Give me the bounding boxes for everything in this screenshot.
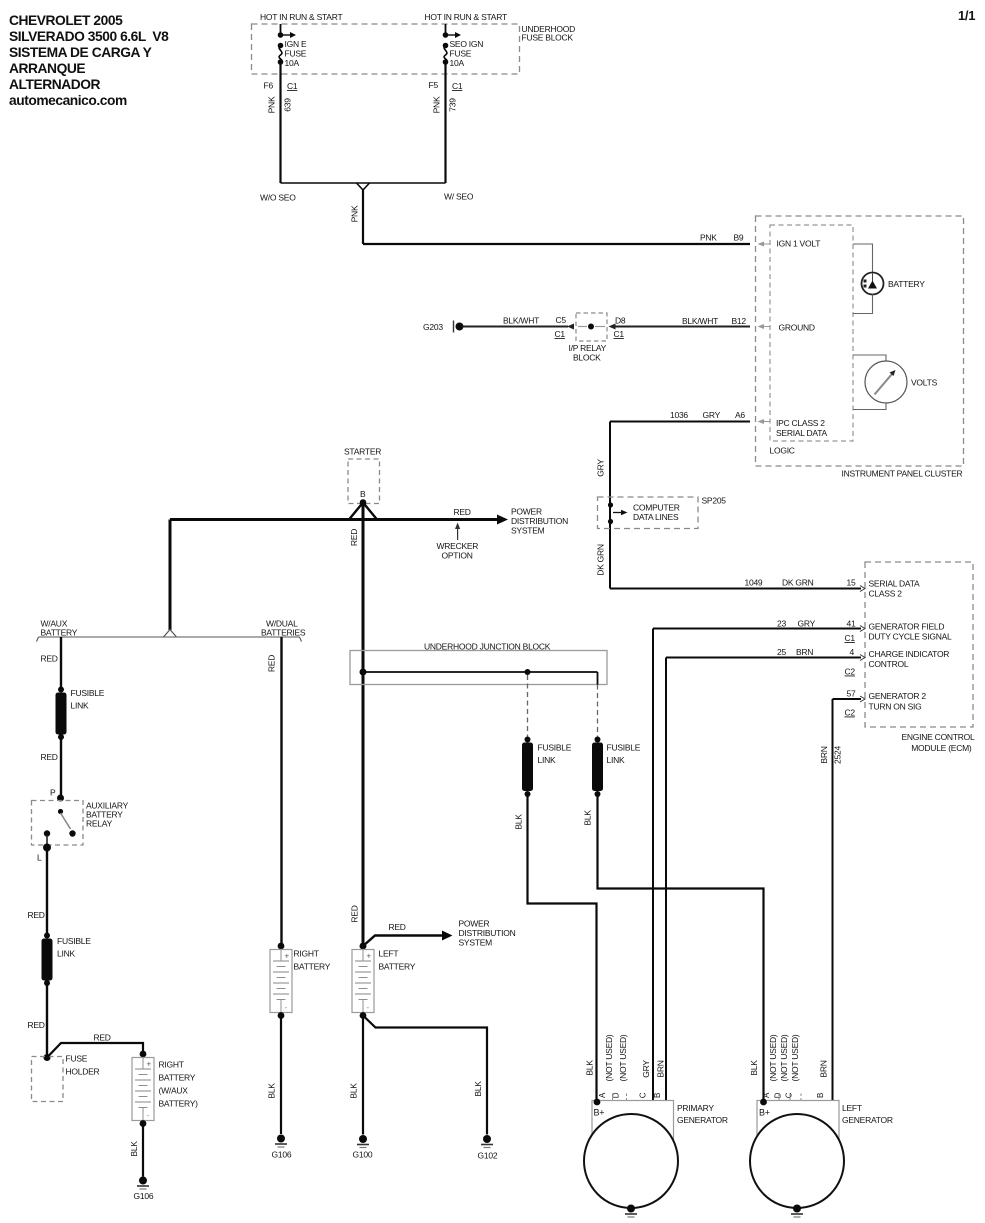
svg-text:LEFT: LEFT bbox=[842, 1103, 862, 1113]
svg-text:RED: RED bbox=[454, 507, 471, 517]
svg-text:B: B bbox=[360, 489, 366, 499]
svg-text:SILVERADO 3500 6.6L V8: SILVERADO 3500 6.6L V8 bbox=[9, 29, 169, 44]
svg-text:DK GRN: DK GRN bbox=[596, 544, 606, 576]
fusible link 1 (aux) bbox=[56, 687, 105, 741]
svg-text:F6: F6 bbox=[264, 81, 274, 91]
svg-text:SYSTEM: SYSTEM bbox=[459, 938, 493, 948]
wire RED relay L to fusible link bbox=[28, 848, 48, 936]
wire PNK to instrument panel cluster B9 bbox=[350, 189, 751, 244]
fusible link 2 (aux) bbox=[42, 933, 92, 987]
svg-text:BATTERY): BATTERY) bbox=[159, 1099, 199, 1109]
primary generator bbox=[584, 1101, 728, 1209]
auxiliary battery relay bbox=[32, 801, 129, 846]
svg-text:GRY: GRY bbox=[641, 1060, 651, 1078]
dashed wire to fusible link 3 bbox=[527, 675, 529, 737]
wire BLK left battery second ground bbox=[363, 1016, 487, 1135]
svg-text:GENERATOR FIELD: GENERATOR FIELD bbox=[869, 622, 945, 632]
svg-text:(NOT USED): (NOT USED) bbox=[779, 1034, 789, 1081]
instrument panel cluster box bbox=[756, 216, 964, 479]
svg-text:LINK: LINK bbox=[71, 701, 89, 711]
svg-text:COMPUTER: COMPUTER bbox=[633, 503, 680, 513]
svg-text:BLK: BLK bbox=[583, 810, 593, 826]
net HOT IN RUN & START (right) bbox=[425, 12, 507, 22]
ground G102 bbox=[478, 1135, 498, 1161]
svg-text:LINK: LINK bbox=[607, 755, 625, 765]
svg-text:GRY: GRY bbox=[596, 459, 606, 477]
wire RED to fuse holder bbox=[28, 983, 51, 1061]
underhood junction block bbox=[350, 642, 607, 685]
svg-text:(NOT USED): (NOT USED) bbox=[768, 1034, 778, 1081]
svg-text:FUSE BLOCK: FUSE BLOCK bbox=[522, 33, 574, 43]
svg-text:BATTERY: BATTERY bbox=[294, 962, 331, 972]
svg-text:1036: 1036 bbox=[670, 410, 688, 420]
wire BLK left battery to ground bbox=[349, 1016, 364, 1135]
svg-text:PNK: PNK bbox=[700, 233, 717, 243]
svg-text:GENERATOR 2: GENERATOR 2 bbox=[869, 691, 927, 701]
svg-text:CLASS 2: CLASS 2 bbox=[869, 589, 903, 599]
svg-text:GENERATOR: GENERATOR bbox=[842, 1115, 893, 1125]
primary generator pin labels A D C B bbox=[598, 1092, 662, 1098]
svg-text:F5: F5 bbox=[429, 80, 439, 90]
svg-text:RED: RED bbox=[41, 752, 58, 762]
node W/O SEO / W/ SEO merge bbox=[260, 183, 474, 203]
splice SP205 computer data lines bbox=[598, 496, 727, 589]
svg-text:HOT IN RUN & START: HOT IN RUN & START bbox=[425, 12, 507, 22]
svg-text:ENGINE CONTROL: ENGINE CONTROL bbox=[901, 732, 975, 742]
svg-text:BRN: BRN bbox=[819, 1060, 829, 1077]
svg-text:RIGHT: RIGHT bbox=[294, 949, 319, 959]
svg-text:BLK: BLK bbox=[349, 1083, 359, 1099]
svg-text:RED: RED bbox=[94, 1033, 111, 1043]
svg-text:RED: RED bbox=[28, 1020, 45, 1030]
svg-text:10A: 10A bbox=[450, 58, 465, 68]
svg-text:SP205: SP205 bbox=[702, 496, 727, 506]
svg-text:FUSE: FUSE bbox=[66, 1054, 88, 1064]
wire BLK right battery to ground bbox=[267, 1016, 282, 1135]
svg-text:W/O SEO: W/O SEO bbox=[260, 193, 296, 203]
pin B12 GROUND bbox=[758, 323, 815, 333]
I/P relay block bbox=[569, 313, 608, 363]
wire BLK/WHT D8 to IPC B12 bbox=[609, 316, 751, 340]
left generator wire color labels bbox=[749, 1034, 829, 1100]
svg-text:DISTRIBUTION: DISTRIBUTION bbox=[459, 928, 516, 938]
svg-text:RED: RED bbox=[349, 529, 359, 546]
svg-text:GROUND: GROUND bbox=[779, 323, 815, 333]
ground G106 (right battery) bbox=[272, 1135, 292, 1160]
svg-text:B: B bbox=[653, 1093, 662, 1098]
svg-text:RED: RED bbox=[389, 922, 406, 932]
net HOT IN RUN & START (left) bbox=[260, 12, 342, 22]
svg-text:B9: B9 bbox=[734, 233, 744, 243]
svg-text:BATTERY: BATTERY bbox=[888, 279, 925, 289]
svg-text:POWER: POWER bbox=[511, 507, 542, 517]
connector label F5 C1 bbox=[429, 80, 463, 91]
ground G106 (aux battery) bbox=[134, 1177, 154, 1202]
svg-text:25: 25 bbox=[777, 647, 786, 657]
svg-text:15: 15 bbox=[847, 578, 856, 588]
svg-text:IGN E: IGN E bbox=[285, 39, 307, 49]
node primary generator B+ bbox=[594, 1099, 601, 1106]
svg-text:BRN: BRN bbox=[819, 746, 829, 763]
svg-text:57: 57 bbox=[847, 689, 856, 699]
svg-text:VOLTS: VOLTS bbox=[911, 378, 938, 388]
svg-text:SERIAL DATA: SERIAL DATA bbox=[869, 579, 921, 589]
starter B terminal bbox=[344, 447, 381, 506]
svg-text:B+: B+ bbox=[594, 1108, 605, 1118]
svg-text:LEFT: LEFT bbox=[379, 949, 399, 959]
dashed wire to fusible link 4 bbox=[597, 685, 599, 737]
wire PNK 639 from fuse F6 bbox=[267, 62, 293, 183]
svg-text:BLK: BLK bbox=[585, 1060, 595, 1076]
svg-text:PNK: PNK bbox=[267, 96, 277, 113]
svg-text:ARRANQUE: ARRANQUE bbox=[9, 61, 85, 76]
svg-text:IPC CLASS 2: IPC CLASS 2 bbox=[776, 418, 825, 428]
svg-text:FUSIBLE: FUSIBLE bbox=[71, 688, 105, 698]
svg-text:DK GRN: DK GRN bbox=[782, 578, 814, 588]
fusible link 4 bbox=[592, 737, 641, 798]
svg-text:RED: RED bbox=[350, 905, 360, 922]
svg-text:PRIMARY: PRIMARY bbox=[677, 1103, 714, 1113]
svg-text:(NOT USED): (NOT USED) bbox=[618, 1034, 628, 1081]
svg-text:1049: 1049 bbox=[745, 578, 763, 588]
svg-text:B+: B+ bbox=[759, 1108, 770, 1118]
svg-text:FUSIBLE: FUSIBLE bbox=[607, 743, 641, 753]
pin A6 IPC CLASS 2 SERIAL DATA bbox=[758, 418, 828, 438]
fuse F6 IGN E FUSE 10A bbox=[278, 24, 307, 68]
svg-text:SYSTEM: SYSTEM bbox=[511, 526, 545, 536]
svg-text:23: 23 bbox=[777, 619, 786, 629]
svg-text:HOLDER: HOLDER bbox=[66, 1067, 100, 1077]
svg-text:B: B bbox=[816, 1093, 825, 1098]
svg-text:BATTERY: BATTERY bbox=[379, 962, 416, 972]
svg-text:RED: RED bbox=[41, 654, 58, 664]
svg-text:C2: C2 bbox=[845, 667, 856, 677]
svg-text:BLK: BLK bbox=[473, 1081, 483, 1097]
svg-text:I/P RELAY: I/P RELAY bbox=[569, 343, 607, 353]
svg-text:PNK: PNK bbox=[350, 205, 360, 222]
svg-text:G106: G106 bbox=[272, 1150, 292, 1160]
svg-text:P: P bbox=[50, 788, 56, 798]
svg-text:C2: C2 bbox=[845, 708, 856, 718]
wire BLK aux battery to ground bbox=[129, 1124, 143, 1177]
svg-text:G102: G102 bbox=[478, 1151, 498, 1161]
svg-text:D: D bbox=[774, 1092, 783, 1098]
wire BRN 25 ECM pin 4 C2 charge indicator bbox=[666, 647, 865, 1100]
svg-text:RED: RED bbox=[267, 655, 277, 672]
wire PNK 739 from fuse F5 bbox=[432, 62, 458, 183]
svg-text:G100: G100 bbox=[353, 1150, 373, 1160]
fusible link 3 bbox=[522, 737, 572, 798]
engine control module (ECM) box bbox=[865, 562, 975, 753]
svg-text:ALTERNADOR: ALTERNADOR bbox=[9, 77, 101, 92]
svg-text:C1: C1 bbox=[452, 81, 463, 91]
primary generator wire color labels bbox=[585, 1034, 666, 1100]
right battery bbox=[270, 943, 331, 1019]
wire RED to auxiliary battery relay P bbox=[41, 737, 65, 802]
svg-text:C1: C1 bbox=[555, 329, 566, 339]
wire RED dual batteries branch bbox=[267, 637, 282, 946]
volts gauge bbox=[853, 355, 938, 410]
wire RED left battery to power distribution system bbox=[363, 919, 516, 948]
svg-text:739: 739 bbox=[448, 98, 458, 112]
svg-text:G203: G203 bbox=[423, 322, 443, 332]
svg-text:DUTY CYCLE SIGNAL: DUTY CYCLE SIGNAL bbox=[869, 632, 953, 642]
svg-text:FUSE: FUSE bbox=[285, 49, 307, 59]
fuse holder bbox=[32, 1054, 100, 1102]
svg-text:IGN 1 VOLT: IGN 1 VOLT bbox=[777, 239, 821, 249]
wrecker option note bbox=[437, 523, 479, 561]
wire RED starter to power distribution system bbox=[170, 507, 568, 536]
svg-text:C5: C5 bbox=[556, 315, 567, 325]
svg-text:BRN: BRN bbox=[796, 647, 813, 657]
svg-text:(NOT USED): (NOT USED) bbox=[604, 1034, 614, 1081]
svg-text:BLK: BLK bbox=[267, 1083, 277, 1099]
left generator bbox=[750, 1101, 893, 1209]
svg-text:BLOCK: BLOCK bbox=[573, 353, 601, 363]
svg-text:C1: C1 bbox=[845, 633, 856, 643]
svg-text:FUSIBLE: FUSIBLE bbox=[538, 743, 572, 753]
svg-text:LINK: LINK bbox=[538, 755, 556, 765]
wire RED fuse holder to right aux battery bbox=[47, 1033, 143, 1058]
svg-text:BLK: BLK bbox=[749, 1060, 759, 1076]
battery charge indicator lamp bbox=[853, 244, 925, 314]
svg-text:BLK: BLK bbox=[514, 814, 524, 830]
svg-text:SISTEMA DE CARGA Y: SISTEMA DE CARGA Y bbox=[9, 45, 152, 60]
left generator case ground bbox=[791, 1205, 803, 1218]
svg-text:BATTERY: BATTERY bbox=[41, 628, 78, 638]
svg-text:SEO IGN: SEO IGN bbox=[450, 39, 484, 49]
svg-text:PNK: PNK bbox=[432, 96, 442, 113]
svg-text:FUSE: FUSE bbox=[450, 49, 472, 59]
svg-text:LOGIC: LOGIC bbox=[770, 446, 795, 456]
svg-text:HOT IN RUN & START: HOT IN RUN & START bbox=[260, 12, 342, 22]
connector label F6 C1 bbox=[264, 81, 298, 92]
wire RED left battery label bbox=[350, 905, 367, 949]
node left generator B+ bbox=[760, 1099, 767, 1106]
pin B9 IGN 1 VOLT bbox=[758, 239, 821, 249]
svg-text:STARTER: STARTER bbox=[344, 447, 381, 457]
svg-text:OPTION: OPTION bbox=[442, 551, 473, 561]
svg-text:FUSIBLE: FUSIBLE bbox=[57, 936, 91, 946]
svg-text:4: 4 bbox=[850, 647, 855, 657]
svg-text:BATTERY: BATTERY bbox=[159, 1073, 196, 1083]
node junction block tap 1 bbox=[360, 669, 367, 676]
svg-text:BRN: BRN bbox=[656, 1060, 666, 1077]
svg-text:WRECKER: WRECKER bbox=[437, 541, 479, 551]
svg-text:C1: C1 bbox=[287, 81, 298, 91]
svg-text:DATA LINES: DATA LINES bbox=[633, 512, 679, 522]
svg-text:1/1: 1/1 bbox=[958, 8, 975, 23]
svg-text:SERIAL DATA: SERIAL DATA bbox=[776, 428, 828, 438]
svg-text:GENERATOR: GENERATOR bbox=[677, 1115, 728, 1125]
svg-text:CONTROL: CONTROL bbox=[869, 659, 909, 669]
svg-text:MODULE (ECM): MODULE (ECM) bbox=[911, 743, 972, 753]
wire DK GRN 1049 to ECM pin 15 bbox=[596, 544, 866, 591]
svg-text:GRY: GRY bbox=[798, 619, 816, 629]
wire RED aux branch down bbox=[41, 637, 62, 690]
wire GRY 23 ECM pin 41 C1 to generator field bbox=[653, 619, 865, 1101]
svg-text:639: 639 bbox=[283, 98, 293, 112]
svg-text:(W/AUX: (W/AUX bbox=[159, 1086, 189, 1096]
left generator pin labels A D C B bbox=[762, 1092, 825, 1098]
wire BLK fusible link 3 to primary generator B+ bbox=[514, 794, 597, 1100]
svg-text:RELAY: RELAY bbox=[86, 819, 113, 829]
node starter B junction bbox=[349, 503, 377, 520]
svg-text:POWER: POWER bbox=[459, 919, 490, 929]
svg-text:B12: B12 bbox=[732, 316, 747, 326]
option bracket W/AUX BATTERY vs W/DUAL BATTERIES bbox=[37, 619, 306, 642]
svg-text:C: C bbox=[639, 1092, 648, 1098]
wire BLK fusible link 4 to left generator B+ bbox=[583, 794, 764, 1100]
underhood fuse block box bbox=[252, 24, 576, 74]
wire RED to aux battery bracket bbox=[169, 520, 172, 631]
svg-text:BLK/WHT: BLK/WHT bbox=[503, 316, 539, 326]
logic module box bbox=[770, 225, 854, 456]
relay terminal L bbox=[37, 844, 51, 863]
title block text bbox=[9, 13, 169, 108]
svg-text:GRY: GRY bbox=[703, 410, 721, 420]
svg-text:BLK: BLK bbox=[129, 1141, 139, 1157]
svg-text:CHEVROLET 2005: CHEVROLET 2005 bbox=[9, 13, 123, 28]
right battery (w/aux battery) bbox=[132, 1051, 198, 1127]
ground splice G203 bbox=[423, 321, 464, 333]
svg-text:LINK: LINK bbox=[57, 949, 75, 959]
left battery bbox=[352, 943, 416, 1019]
svg-text:CHARGE INDICATOR: CHARGE INDICATOR bbox=[869, 649, 950, 659]
svg-text:2524: 2524 bbox=[833, 746, 843, 764]
svg-text:RIGHT: RIGHT bbox=[159, 1060, 184, 1070]
svg-text:41: 41 bbox=[847, 619, 856, 629]
svg-text:L: L bbox=[37, 853, 42, 863]
page number 1/1 bbox=[958, 8, 975, 23]
svg-text:RED: RED bbox=[28, 910, 45, 920]
svg-text:DISTRIBUTION: DISTRIBUTION bbox=[511, 516, 568, 526]
svg-text:BLK/WHT: BLK/WHT bbox=[682, 316, 718, 326]
svg-text:W/ SEO: W/ SEO bbox=[444, 192, 474, 202]
ground G100 bbox=[353, 1135, 373, 1160]
svg-text:automecanico.com: automecanico.com bbox=[9, 93, 127, 108]
svg-text:A6: A6 bbox=[735, 410, 745, 420]
svg-text:(NOT USED): (NOT USED) bbox=[790, 1034, 800, 1081]
svg-text:INSTRUMENT PANEL CLUSTER: INSTRUMENT PANEL CLUSTER bbox=[842, 469, 963, 479]
primary generator case ground bbox=[625, 1205, 637, 1218]
svg-text:C1: C1 bbox=[614, 329, 625, 339]
wire BRN 2524 ECM pin 57 C2 generator 2 turn on bbox=[819, 689, 865, 1101]
svg-text:D8: D8 bbox=[615, 316, 626, 326]
node junction block tap 2 bbox=[525, 669, 531, 675]
svg-text:G106: G106 bbox=[134, 1191, 154, 1201]
svg-text:BATTERIES: BATTERIES bbox=[261, 628, 306, 638]
svg-text:10A: 10A bbox=[285, 58, 300, 68]
fuse F5 SEO IGN FUSE 10A bbox=[443, 24, 484, 68]
wire GRY 1036 from IPC A6 bbox=[596, 410, 751, 498]
svg-text:C: C bbox=[785, 1092, 794, 1098]
svg-text:TURN ON SIG: TURN ON SIG bbox=[869, 702, 922, 712]
wire RED main vertical from starter to left battery bbox=[349, 503, 363, 947]
wire BLK/WHT G203 to I/P relay block C5 bbox=[462, 315, 574, 339]
